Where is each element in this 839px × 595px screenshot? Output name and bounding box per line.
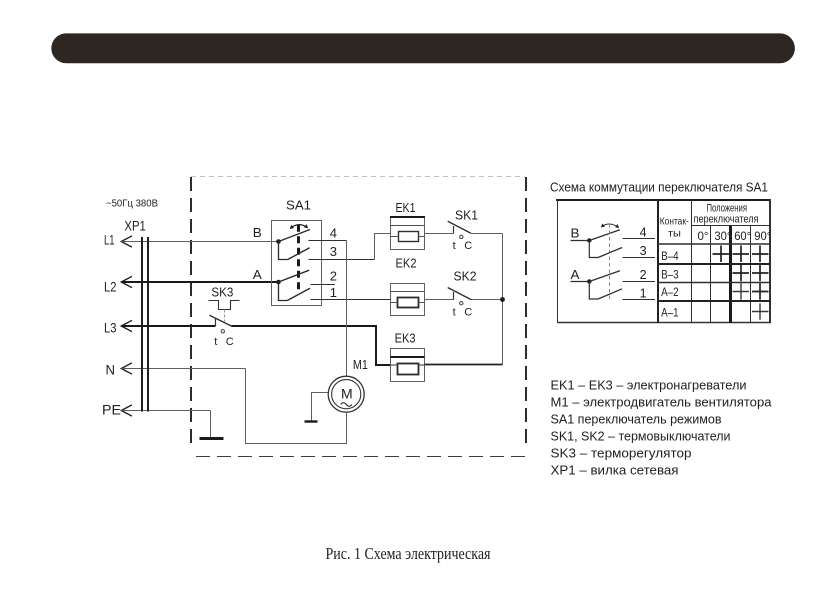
plus B-4 90 [752,246,769,263]
table frame top [556,199,771,201]
table divider 0-30 [710,225,712,323]
thermal switch SK1 pivot [453,226,455,234]
svg-text:4: 4 [330,225,337,240]
svg-text:ты: ты [668,229,681,240]
table diagram terminal 4 [623,238,656,240]
motor M1 outer circle [328,376,364,412]
table divider 60-90 [750,225,752,323]
svg-text:t: t [453,307,456,319]
thermostat SK3 t-circle [221,330,224,333]
svg-text:SA1: SA1 [286,198,311,213]
node N arrow [121,363,132,374]
table divider contacts column [691,199,693,323]
terminal 2 line [311,284,336,286]
svg-text:переключателя: переключателя [694,214,759,226]
table diagram blade A-1 [598,289,622,299]
ground (PE earth bar) [200,437,224,440]
svg-text:EK1: EK1 [396,200,416,215]
heater EK3 leads [391,364,398,366]
svg-text:N: N [106,362,116,377]
heater EK2 body [391,284,425,316]
svg-text:C: C [226,336,234,348]
node B dot [276,239,281,244]
wire L3 after SK3 [232,326,391,365]
svg-text:Рис. 1 Схема электрическая: Рис. 1 Схема электрическая [326,544,491,563]
svg-text:XP1: XP1 [124,219,145,234]
heater EK2 leads [391,302,398,304]
svg-text:SK2: SK2 [454,269,477,284]
svg-text:А–1: А–1 [661,308,679,320]
switch SA1 body [272,221,322,306]
wire motor case to ground [312,393,329,422]
node L2 arrow [121,276,132,287]
svg-text:C: C [464,240,472,252]
plus A-1 90 [752,303,769,319]
node L3 arrow [121,320,132,331]
svg-text:SA1 переключатель режимов: SA1 переключатель режимов [551,412,722,427]
wire EK2 to SK2 [425,299,454,301]
table diagram blade B-4 [589,230,620,241]
table frame bottom [557,322,771,324]
motor M1 inner circle [332,380,361,409]
connector XP1 pin line 1 [141,237,143,412]
thermal switch SK2 pivot [453,292,455,300]
svg-text:Контак-: Контак- [660,217,689,228]
wire SK1 to common [471,233,503,235]
svg-text:60°: 60° [734,229,751,243]
wire L2 (phase to A) [121,281,278,283]
svg-text:0°: 0° [698,229,709,243]
plus A-2 60 [733,283,750,299]
switch SA1 shaft (dashed) [297,225,300,291]
wire L1 [121,241,278,243]
svg-text:3: 3 [330,244,337,259]
wire PE drop [210,411,212,439]
svg-text:SK1: SK1 [455,208,478,223]
svg-text:A: A [571,268,581,282]
table divider 30-60 (thick) [729,225,732,323]
svg-text:90°: 90° [754,229,771,243]
switch SA1 bus A to 1 [279,282,288,301]
svg-text:SK1, SK2 – термовыключатели: SK1, SK2 – термовыключатели [551,429,731,444]
table divider after diagram cell [657,199,659,323]
table diagram bus A-1 [589,282,598,300]
switch SA1 blade A-2 [279,270,310,282]
heater EK3 element [398,364,419,375]
table diagram terminal 3 [623,257,656,259]
thermal switch SK2 t-circle [460,302,463,305]
dashed enclosure left [190,177,192,450]
thermal switch SK1 t-circle [460,235,463,238]
table diagram wire B [571,240,590,242]
table row line under B-3 [657,282,771,284]
table frame left [557,199,559,323]
node L1 arrow [121,236,132,247]
svg-text:В–4: В–4 [661,251,679,263]
plus B-4 30 [713,246,730,263]
svg-text:EK1 – EK3 – электронагреватели: EK1 – EK3 – электронагреватели [551,378,747,393]
table diagram wire A [571,281,590,283]
dashed enclosure top [191,176,525,178]
table diagram terminal 2 [623,281,656,283]
wire common vertical [502,234,504,365]
svg-text:t: t [214,336,217,348]
terminal 4 line [309,240,347,242]
table frame right [769,199,771,323]
svg-text:M: M [341,385,353,401]
terminal 3 line [309,259,375,261]
header bar [51,33,795,63]
heater EK2 element [398,298,419,308]
table row line under A-2 [657,300,771,302]
thermostat SK3 sensor bracket [209,301,240,310]
heater EK1 body [391,217,425,250]
dashed enclosure right [525,177,527,450]
wire terminal 4 to motor [346,241,348,377]
motor M1 tilde [341,403,352,407]
heater EK1 leads [391,236,399,238]
svg-text:3: 3 [640,244,647,258]
switch SA1 blade B-3 [288,248,310,260]
terminal 1 line (wire to EK2) [311,299,391,301]
switch SA1 blade B-4 [279,230,311,242]
wire SK2 to junction [471,299,503,301]
table diagram shaft [609,224,611,301]
svg-text:SK3: SK3 [211,284,233,299]
svg-text:2: 2 [640,268,647,282]
plus B-3 60 [733,265,750,281]
table diagram node B dot [587,238,591,242]
table diagram blade A-2 [589,271,620,282]
svg-text:B: B [571,227,580,241]
dashed enclosure bottom [196,456,525,458]
switch SA1 blade A-1 [287,288,310,300]
heater EK3 body [391,349,425,382]
table diagram node A dot [587,279,591,283]
switch SA1 rotation arrow [291,225,307,228]
svg-text:C: C [464,307,472,319]
svg-text:В–3: В–3 [661,270,679,282]
svg-text:1: 1 [640,286,647,300]
plus B-4 60 [733,246,750,263]
svg-text:M1 – электродвигатель вентилят: M1 – электродвигатель вентилятора [551,395,773,410]
table row line under degrees [657,243,771,245]
svg-text:B: B [253,225,262,240]
svg-text:L2: L2 [104,280,117,295]
svg-text:30°: 30° [714,229,731,243]
junction dot common [500,297,505,302]
svg-text:XP1 – вилка сетевая: XP1 – вилка сетевая [551,463,679,478]
table diagram blade B-3 [598,248,622,258]
wire EK1 to SK1 [425,233,454,235]
ground (motor case) [305,420,318,422]
wire N routing to motor [246,369,347,444]
wire N [121,368,245,370]
svg-text:L3: L3 [104,321,117,336]
plus A-2 90 [752,283,769,299]
svg-text:EK2: EK2 [396,256,417,271]
svg-text:EK3: EK3 [395,331,416,346]
svg-text:~50Гц 380В: ~50Гц 380В [106,199,158,210]
svg-text:A: A [253,267,262,282]
svg-text:L1: L1 [104,233,115,248]
svg-text:M1: M1 [353,357,368,372]
node PE arrow [121,405,132,416]
heater EK2 flange line [391,291,425,293]
svg-text:2: 2 [330,268,337,283]
heater EK1 flange line [391,225,425,227]
wire PE [121,410,210,412]
switch SA1 bus B to 3 [279,242,288,260]
svg-text:1: 1 [330,285,337,300]
svg-text:А–2: А–2 [661,287,679,299]
table row line under B-4 [657,263,771,265]
thermostat SK3 link [224,310,226,322]
thermostat SK3 pivot [215,318,217,326]
plus B-3 90 [752,265,769,281]
heater EK1 top cap [390,216,425,218]
wire L3 to SK3 [121,325,215,327]
heater EK3 flange line [391,356,425,358]
wire terminal 3 to EK1 [375,234,392,260]
svg-text:t: t [453,240,456,252]
connector XP1 pin line 2 [147,237,149,412]
wire motor bottom [346,412,348,443]
node A dot [276,280,281,285]
wire EK3 to common [425,364,503,366]
heater EK1 element [399,232,419,242]
thermal switch SK2 blade [448,288,471,300]
table diagram terminal 1 [623,299,656,301]
table diagram rotation arrow [602,224,618,227]
svg-text:PE: PE [102,402,121,417]
thermal switch SK1 blade [448,221,471,233]
svg-text:Схема коммутации переключателя: Схема коммутации переключателя SA1 [550,180,768,195]
svg-text:4: 4 [640,225,647,239]
table row line under header [692,225,772,227]
thermostat SK3 blade [210,315,232,326]
table diagram bus B-3 [589,241,598,258]
svg-text:SK3 – терморегулятор: SK3 – терморегулятор [551,446,692,461]
